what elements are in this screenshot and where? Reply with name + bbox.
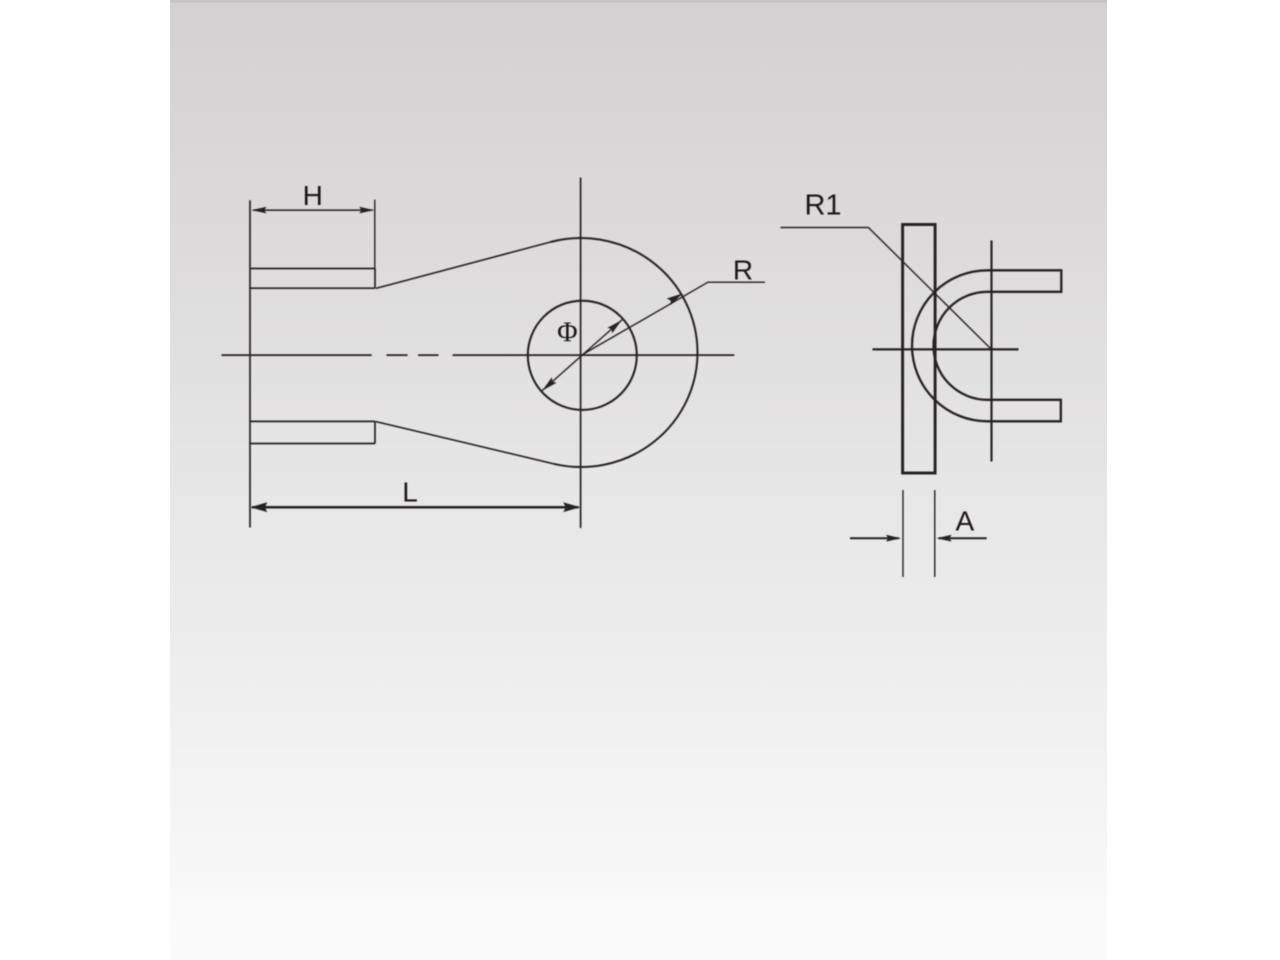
- svg-text:L: L: [402, 477, 418, 508]
- right view horizontal centerline: [873, 348, 1019, 350]
- panel top edge shading: [170, 0, 1107, 3]
- clevis bottom bar: [988, 400, 1061, 422]
- tube lower wall: [250, 421, 375, 443]
- left view horizontal centerline (long dash - short dashes - long dash): [222, 354, 372, 356]
- H extension line right: [374, 200, 376, 269]
- clevis top bar: [988, 270, 1062, 292]
- svg-text:Φ: Φ: [557, 318, 577, 349]
- R radius line and leader: [582, 282, 766, 355]
- svg-text:H: H: [303, 180, 323, 211]
- A extension line right: [934, 490, 936, 577]
- R1 leader line: [781, 228, 992, 350]
- left view vertical centerline: [580, 178, 582, 529]
- eye outer arc: [551, 238, 698, 467]
- H arrowhead left: [252, 207, 267, 214]
- H dimension line: [253, 209, 373, 211]
- right view vertical centerline: [990, 241, 992, 462]
- background panel: [170, 0, 1107, 960]
- eye hole circle: [528, 301, 637, 410]
- clevis U outer arc: [912, 270, 987, 421]
- R radius arrowhead: [667, 293, 683, 305]
- H arrowhead right: [359, 207, 374, 214]
- svg-text:R: R: [733, 254, 753, 285]
- upper taper line to eye: [376, 242, 551, 288]
- L arrowhead left: [250, 502, 267, 512]
- A arrow line left: [850, 537, 899, 539]
- A extension line left: [902, 490, 904, 577]
- clevis U inner arc: [934, 292, 988, 400]
- A arrowhead left: [886, 535, 901, 542]
- right view plate rectangle: [903, 225, 936, 474]
- hole diameter arrowhead lower left: [542, 377, 556, 390]
- L arrowhead right: [563, 502, 580, 512]
- svg-text:A: A: [955, 506, 974, 537]
- hole diameter arrow line: [542, 320, 623, 392]
- lower taper line to eye: [376, 422, 554, 464]
- A arrowhead right: [937, 535, 952, 542]
- tube left end line (also extension line for H and L): [249, 200, 251, 527]
- L dimension line: [252, 506, 579, 509]
- A arrow line right: [939, 537, 987, 539]
- svg-text:R1: R1: [804, 190, 841, 222]
- tube upper wall: [250, 269, 375, 289]
- hole diameter arrowhead upper right: [607, 320, 621, 333]
